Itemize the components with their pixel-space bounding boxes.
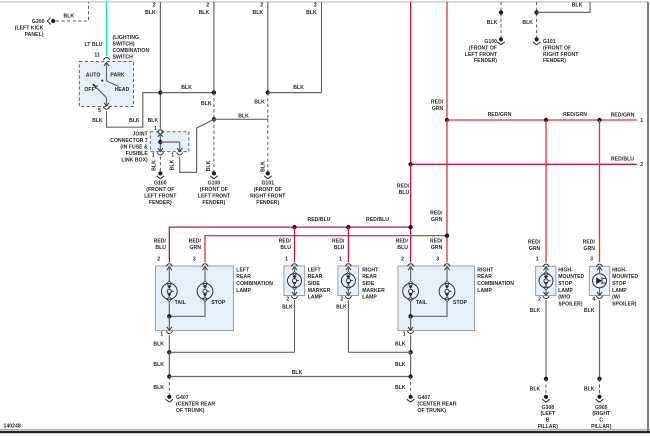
pin 2 bottom	[538, 296, 549, 302]
ground G407 center rear of trunk	[166, 395, 216, 414]
svg-text:AUTO: AUTO	[86, 73, 101, 79]
svg-text:G200: G200	[32, 19, 45, 25]
bulb	[341, 267, 355, 296]
svg-text:RED/BLU: RED/BLU	[366, 217, 389, 223]
svg-text:(LEFT: (LEFT	[540, 411, 556, 417]
right rear side marker lamp label	[362, 267, 385, 300]
svg-text:RIGHT: RIGHT	[477, 267, 494, 273]
svg-text:MARKER: MARKER	[362, 288, 385, 294]
svg-text:BLK: BLK	[584, 308, 595, 314]
svg-text:(FRONT OF: (FRONT OF	[200, 187, 228, 193]
svg-text:SIDE: SIDE	[362, 281, 375, 287]
svg-text:BLK: BLK	[254, 99, 265, 105]
svg-text:BLK: BLK	[252, 10, 263, 16]
svg-text:11: 11	[94, 52, 100, 58]
wire BLK joint connector to splice	[169, 119, 214, 172]
high mounted stop lamp w spoiler label	[612, 267, 638, 307]
svg-text:LAMP: LAMP	[558, 288, 573, 294]
svg-text:RED/BLU: RED/BLU	[308, 217, 331, 223]
svg-text:1: 1	[160, 331, 163, 337]
svg-text:BLK: BLK	[148, 118, 159, 124]
svg-text:RED/: RED/	[430, 210, 443, 216]
svg-text:OF TRUNK): OF TRUNK)	[176, 408, 205, 414]
splice dot	[499, 10, 503, 14]
left rear side marker lamp label	[308, 267, 331, 300]
svg-text:FENDER): FENDER)	[202, 200, 225, 206]
svg-text:REAR: REAR	[477, 274, 492, 280]
svg-text:PARK: PARK	[110, 73, 125, 79]
wire RED/BLU lower bus	[169, 217, 410, 263]
wire LT BLU to combination switch pin 11	[84, 2, 106, 56]
wire BLK from pin 5 to splice	[92, 93, 160, 128]
svg-text:5: 5	[98, 108, 101, 114]
svg-text:(W/O: (W/O	[558, 295, 570, 301]
wire BLK marker join left	[169, 351, 294, 353]
wire BLK right marker ground	[336, 300, 348, 352]
svg-text:STOP: STOP	[453, 300, 468, 306]
svg-text:BLK: BLK	[199, 10, 210, 16]
svg-text:140248: 140248	[4, 424, 21, 430]
pin 1 connector	[345, 264, 351, 270]
svg-text:3: 3	[590, 257, 593, 263]
svg-text:GRN: GRN	[431, 217, 443, 223]
svg-text:HIGH-: HIGH-	[558, 267, 573, 273]
svg-text:BLU: BLU	[155, 245, 166, 251]
combination switch box	[79, 61, 133, 106]
svg-text:SIDE: SIDE	[308, 281, 321, 287]
svg-text:OFF: OFF	[84, 87, 94, 93]
svg-text:PANEL): PANEL)	[25, 32, 44, 38]
svg-text:RED/: RED/	[430, 238, 443, 244]
high mounted stop lamp w/o spoiler box	[536, 266, 556, 295]
joint connector internal wiring	[158, 136, 182, 152]
svg-text:1: 1	[339, 257, 342, 263]
joint connector pins 1 bottom	[152, 152, 183, 158]
svg-text:BLK: BLK	[395, 385, 406, 391]
svg-text:LAMP: LAMP	[477, 288, 492, 294]
svg-text:BLK: BLK	[153, 341, 164, 347]
svg-text:BLK: BLK	[145, 10, 156, 16]
left rear combination lamp box	[156, 266, 234, 331]
svg-text:TAIL: TAIL	[416, 300, 427, 306]
svg-text:LINK BOX): LINK BOX)	[121, 158, 148, 164]
svg-text:CONNECTOR 7: CONNECTOR 7	[110, 138, 148, 144]
svg-text:G100: G100	[484, 39, 497, 45]
bulb TAIL	[403, 267, 427, 307]
svg-text:1: 1	[152, 152, 155, 158]
svg-text:LEFT FRONT: LEFT FRONT	[198, 194, 231, 200]
svg-text:2: 2	[401, 257, 404, 263]
ground G100 second front of left front fender	[198, 171, 231, 206]
svg-text:GRN: GRN	[584, 246, 596, 252]
svg-text:GRN: GRN	[431, 245, 443, 251]
wire BLK dashed to ground G407 left	[153, 377, 169, 395]
internal wiring	[408, 302, 447, 331]
left rear side marker lamp box	[284, 266, 305, 296]
splice dot	[346, 225, 350, 229]
svg-text:JOINT: JOINT	[133, 132, 149, 138]
ground G101 front of right front fender	[533, 37, 579, 64]
wire BLK vertical 1	[145, 2, 160, 129]
svg-text:RED/GRN: RED/GRN	[488, 112, 512, 118]
svg-text:B: B	[546, 418, 550, 424]
svg-text:BLK: BLK	[572, 3, 583, 9]
svg-text:BLU: BLU	[334, 245, 345, 251]
splice dot	[167, 350, 171, 354]
ground G100 front of left front fender right area	[465, 37, 505, 64]
svg-text:RIGHT: RIGHT	[362, 267, 379, 273]
svg-text:GRN: GRN	[190, 245, 202, 251]
right rear side marker lamp box	[338, 266, 359, 296]
combination switch label	[113, 35, 150, 61]
svg-text:(CENTER REAR: (CENTER REAR	[176, 402, 215, 408]
svg-text:(FRONT OF: (FRONT OF	[146, 187, 174, 193]
svg-text:REAR: REAR	[236, 274, 251, 280]
svg-text:G905: G905	[595, 405, 608, 411]
svg-text:LEFT: LEFT	[236, 267, 250, 273]
diagram number	[4, 424, 21, 430]
svg-text:HEAD: HEAD	[115, 87, 130, 93]
svg-text:RED/: RED/	[396, 238, 409, 244]
svg-text:SPOILER): SPOILER)	[558, 301, 583, 307]
svg-text:SWITCH: SWITCH	[113, 55, 134, 61]
wire BLK to ground	[584, 300, 600, 379]
splice dot	[408, 162, 412, 166]
splice dot	[212, 117, 216, 121]
high mounted stop lamp w spoiler box	[589, 266, 609, 295]
svg-text:PILLAR): PILLAR)	[591, 424, 612, 430]
splice dot	[167, 374, 171, 378]
svg-text:4: 4	[592, 296, 595, 302]
wire BLK bus lower	[214, 113, 268, 119]
svg-text:REAR: REAR	[362, 274, 377, 280]
splice dot	[597, 377, 601, 381]
splice dot	[292, 225, 296, 229]
svg-text:1: 1	[403, 331, 406, 337]
svg-text:FENDER): FENDER)	[256, 200, 279, 206]
svg-text:LAMP: LAMP	[612, 288, 627, 294]
svg-text:STOP: STOP	[211, 300, 226, 306]
svg-text:2: 2	[153, 2, 156, 8]
svg-text:BLK: BLK	[584, 386, 595, 392]
svg-text:RED/: RED/	[332, 238, 345, 244]
svg-text:LAMP: LAMP	[308, 295, 323, 301]
pin label high mounted stop lamp 2	[590, 257, 593, 263]
ground G905 right C pillar	[591, 395, 612, 430]
wire BLK cross link	[169, 370, 410, 376]
svg-text:FENDER): FENDER)	[474, 58, 497, 64]
svg-text:PILLAR): PILLAR)	[538, 424, 559, 430]
svg-text:FENDER): FENDER)	[149, 200, 172, 206]
svg-text:G101: G101	[543, 39, 556, 45]
svg-text:2: 2	[260, 2, 263, 8]
svg-text:G308: G308	[541, 405, 554, 411]
splice dot	[445, 118, 449, 122]
svg-text:BLK: BLK	[153, 362, 164, 368]
svg-text:MARKER: MARKER	[308, 288, 331, 294]
pin 5	[98, 107, 110, 114]
wire RED/BLU to rear lamps	[397, 164, 411, 262]
splice dot	[266, 90, 270, 94]
wire BLK dashed to ground G905	[584, 379, 600, 395]
svg-text:BLK: BLK	[238, 113, 249, 119]
svg-text:RED/: RED/	[279, 238, 292, 244]
svg-text:(FRONT OF: (FRONT OF	[543, 45, 571, 51]
svg-text:G100: G100	[154, 181, 167, 187]
svg-text:BLK: BLK	[336, 305, 347, 311]
pin 2 connector	[166, 264, 172, 270]
bulb STOP	[197, 267, 226, 307]
svg-text:STOP: STOP	[558, 281, 573, 287]
splice dot	[408, 350, 412, 354]
pin 4 bottom	[592, 296, 602, 302]
svg-text:STOP: STOP	[612, 281, 627, 287]
svg-text:1: 1	[640, 118, 643, 124]
bulb TAIL	[161, 267, 185, 307]
svg-text:MOUNTED: MOUNTED	[558, 274, 584, 280]
pin label high mounted stop lamp 1	[536, 257, 539, 263]
wire BLK vertical 2 dashed to ground	[206, 119, 214, 171]
svg-text:RED/GRN: RED/GRN	[563, 112, 587, 118]
wire RED/BLU right marker drop	[347, 227, 349, 262]
splice dot	[212, 90, 216, 94]
wire RED/GRN to rear lamps	[430, 120, 447, 262]
svg-text:RIGHT FRONT: RIGHT FRONT	[250, 194, 286, 200]
ground G101 front of right front fender	[250, 171, 286, 206]
wire BLK vertical 3 dashed to ground	[254, 93, 268, 172]
svg-text:1: 1	[285, 257, 288, 263]
internal wiring	[167, 302, 205, 331]
splice dot	[534, 10, 538, 14]
svg-text:COMBINATION: COMBINATION	[113, 48, 150, 54]
svg-text:BLK: BLK	[261, 161, 267, 172]
wire RED/GRN lower bus	[205, 236, 447, 263]
wire BLK vertical 2	[199, 2, 214, 93]
svg-text:GRN: GRN	[432, 106, 444, 112]
high mounted stop lamp w/o spoiler label	[558, 267, 584, 307]
wire BLK marker join right	[348, 351, 410, 353]
svg-text:BLK: BLK	[530, 308, 541, 314]
svg-text:BLK: BLK	[181, 85, 192, 91]
svg-text:LAMP: LAMP	[362, 295, 377, 301]
wire BLK vertical 3	[252, 2, 267, 93]
pin labels right rear combination lamp	[396, 238, 443, 262]
svg-text:BLK: BLK	[306, 10, 317, 16]
svg-text:BLK: BLK	[201, 101, 212, 107]
pin 2 connector	[407, 264, 413, 270]
svg-text:2: 2	[340, 296, 343, 302]
svg-text:BLK: BLK	[92, 118, 103, 124]
wire RED/GRN high mounted stop lamp drop 2	[583, 120, 600, 262]
pin 3 connector	[202, 264, 208, 270]
wire RED/GRN bus 1	[447, 112, 643, 124]
svg-text:BLK: BLK	[395, 341, 406, 347]
combination switch contacts AUTO PARK OFF HEAD	[84, 62, 129, 106]
svg-text:(LIGHTING: (LIGHTING	[113, 35, 139, 41]
svg-text:MOUNTED: MOUNTED	[612, 274, 638, 280]
svg-text:2: 2	[640, 162, 643, 168]
svg-text:RED/GRN: RED/GRN	[611, 112, 635, 118]
splice dot	[544, 377, 548, 381]
pin label right rear side marker lamp	[332, 238, 345, 262]
wire BLK dashed to ground G407 right	[395, 377, 411, 395]
wire BLK bus	[160, 85, 214, 92]
svg-text:REAR: REAR	[308, 274, 323, 280]
wire RED/BLU bus 2	[411, 156, 644, 168]
svg-text:2: 2	[157, 257, 160, 263]
right rear combination lamp label	[477, 267, 514, 293]
pin 1 bottom	[403, 331, 414, 337]
joint connector 7 box	[150, 132, 189, 152]
svg-text:BLK: BLK	[293, 85, 304, 91]
joint connector 7 label	[110, 132, 148, 164]
svg-text:LEFT FRONT: LEFT FRONT	[465, 52, 498, 58]
svg-text:G100: G100	[208, 181, 221, 187]
wire BLK left lamp ground chain	[153, 335, 169, 352]
pin 1 bottom	[160, 331, 172, 337]
svg-text:BLK: BLK	[169, 159, 175, 170]
svg-text:2: 2	[286, 296, 289, 302]
svg-text:LEFT FRONT: LEFT FRONT	[144, 194, 177, 200]
splice dot	[158, 90, 162, 94]
svg-text:RED/: RED/	[397, 183, 410, 189]
svg-text:(RIGHT: (RIGHT	[592, 411, 611, 417]
pin 1 connector	[291, 264, 297, 270]
pin 1 connector	[543, 264, 549, 270]
svg-text:BLK: BLK	[530, 386, 541, 392]
wire RED/GRN main vertical	[431, 2, 447, 120]
svg-text:BLK: BLK	[206, 160, 212, 171]
svg-text:RIGHT FRONT: RIGHT FRONT	[543, 52, 579, 58]
svg-text:BLK: BLK	[522, 20, 533, 26]
pin 3 connector	[444, 264, 450, 270]
svg-text:2: 2	[206, 2, 209, 8]
svg-text:LEFT: LEFT	[308, 267, 322, 273]
pin labels left rear combination lamp	[154, 238, 202, 262]
svg-text:3: 3	[193, 257, 196, 263]
splice dot	[597, 118, 601, 122]
wire BLK vertical 2 lower dashed	[201, 93, 214, 120]
svg-text:COMBINATION: COMBINATION	[236, 281, 273, 287]
svg-text:BLK: BLK	[292, 370, 303, 376]
splice dot	[445, 233, 449, 237]
wire BLK to top	[537, 2, 590, 12]
wire BLK right lamp ground chain	[395, 335, 411, 352]
wire BLK dashed to ground G101	[522, 2, 536, 37]
svg-text:BLU: BLU	[397, 245, 408, 251]
wire BLK dashed to ground G100 right area	[487, 2, 501, 37]
wire BLK down left	[153, 352, 169, 376]
svg-text:G407: G407	[418, 395, 431, 401]
wire BLK down right	[395, 352, 411, 376]
wire BLK bus right	[268, 85, 322, 92]
bulb	[288, 267, 302, 296]
pin 3 connector	[596, 264, 602, 270]
svg-text:3: 3	[436, 257, 439, 263]
svg-text:(IN FUSE &: (IN FUSE &	[120, 145, 148, 151]
svg-text:(LEFT KICK: (LEFT KICK	[15, 26, 44, 32]
bulb	[539, 267, 553, 296]
svg-text:RED/: RED/	[431, 99, 444, 105]
svg-text:BLU: BLU	[399, 190, 410, 196]
wire BLK vertical 4	[306, 2, 321, 93]
wire RED/BLU main vertical	[410, 2, 412, 164]
splice dot	[408, 225, 412, 229]
bulb STOP	[439, 267, 467, 307]
wire RED/GRN high mounted stop lamp drop 1	[528, 120, 546, 262]
svg-text:BLK: BLK	[153, 385, 164, 391]
svg-text:RED/: RED/	[583, 239, 596, 245]
wire BLK to ground	[530, 300, 546, 379]
svg-text:HIGH-: HIGH-	[612, 267, 627, 273]
svg-text:BLU: BLU	[280, 245, 291, 251]
ground G200	[15, 18, 56, 39]
wire BLK from G200 to top	[56, 2, 89, 21]
svg-text:G101: G101	[261, 181, 274, 187]
pin 11	[94, 52, 109, 60]
svg-text:(FRONT OF: (FRONT OF	[469, 45, 497, 51]
svg-text:RED/: RED/	[189, 238, 202, 244]
splice dot	[408, 374, 412, 378]
svg-text:OF TRUNK): OF TRUNK)	[418, 408, 447, 414]
ground G308 left B pillar	[538, 395, 559, 430]
ground G407 center rear of trunk right	[407, 395, 457, 414]
svg-text:COMBINATION: COMBINATION	[477, 281, 514, 287]
svg-text:RED/: RED/	[154, 238, 167, 244]
joint connector pin 1 top	[154, 126, 163, 137]
svg-text:(FRONT OF: (FRONT OF	[254, 187, 282, 193]
svg-text:SPOILER): SPOILER)	[612, 301, 637, 307]
svg-text:RED/: RED/	[528, 239, 541, 245]
svg-text:TAIL: TAIL	[175, 300, 186, 306]
svg-text:GRN: GRN	[529, 246, 541, 252]
svg-text:BLK: BLK	[282, 305, 293, 311]
svg-text:C: C	[599, 418, 603, 424]
svg-text:SWITCH): SWITCH)	[113, 42, 135, 48]
svg-text:G407: G407	[176, 395, 189, 401]
svg-text:2: 2	[314, 2, 317, 8]
LED bulb	[593, 267, 607, 296]
wire BLK dashed to ground G308	[530, 379, 546, 395]
splice dot	[544, 118, 548, 122]
svg-text:LT BLU: LT BLU	[84, 42, 102, 48]
svg-text:BLK: BLK	[63, 14, 74, 20]
pin label left rear side marker lamp	[279, 238, 292, 262]
svg-text:2: 2	[538, 296, 541, 302]
svg-text:(W/: (W/	[612, 295, 621, 301]
right rear combination lamp box	[398, 266, 475, 331]
svg-text:1: 1	[171, 152, 174, 158]
svg-text:BLK: BLK	[487, 20, 498, 26]
svg-text:1: 1	[154, 126, 157, 132]
svg-text:(CENTER REAR: (CENTER REAR	[418, 402, 457, 408]
pin 2 bottom	[340, 296, 351, 302]
svg-text:BLK: BLK	[152, 160, 158, 171]
left rear combination lamp label	[236, 267, 273, 293]
svg-text:FENDER): FENDER)	[543, 58, 566, 64]
svg-text:BLK: BLK	[395, 362, 406, 368]
pin 2 bottom	[286, 296, 297, 302]
wire BLK dashed to ground G100	[152, 157, 161, 172]
wire BLK left marker ground	[282, 300, 294, 352]
svg-text:LAMP: LAMP	[236, 288, 251, 294]
wire RED/BLU left marker drop	[294, 227, 296, 262]
svg-text:RED/BLU: RED/BLU	[611, 156, 634, 162]
svg-text:FUSIBLE: FUSIBLE	[126, 151, 149, 157]
ground G100 front of left front fender	[144, 171, 177, 206]
svg-text:1: 1	[536, 257, 539, 263]
svg-text:BLK: BLK	[129, 118, 140, 124]
